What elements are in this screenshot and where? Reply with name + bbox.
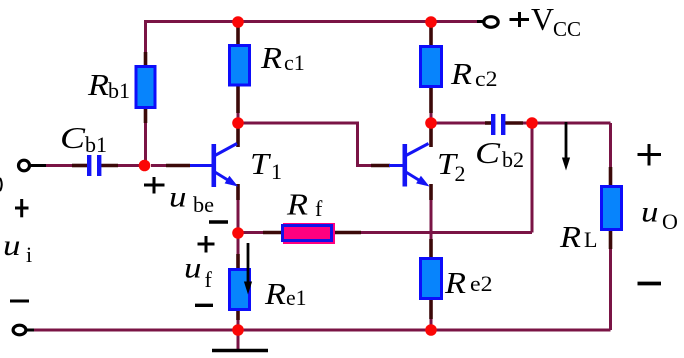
svg-text:be: be [193, 192, 214, 217]
svg-text:e1: e1 [286, 285, 307, 310]
svg-text:b2: b2 [502, 147, 524, 172]
svg-text:O: O [662, 209, 678, 234]
svg-text:R: R [286, 187, 308, 222]
svg-text:f: f [315, 196, 323, 221]
svg-text:C: C [475, 135, 500, 170]
svg-text:CC: CC [553, 17, 581, 41]
svg-text:c1: c1 [284, 50, 305, 75]
svg-text:T: T [250, 146, 272, 181]
svg-text:L: L [584, 227, 597, 252]
svg-text:R: R [87, 67, 109, 102]
svg-text:u: u [3, 229, 21, 262]
svg-text:1: 1 [271, 159, 282, 184]
svg-text:i: i [26, 242, 32, 267]
svg-text:e2: e2 [470, 271, 493, 296]
svg-text:R: R [559, 219, 581, 254]
svg-text:2: 2 [455, 161, 466, 186]
svg-text:u: u [641, 196, 659, 229]
svg-text:u: u [169, 181, 187, 214]
svg-text:b1: b1 [85, 132, 107, 157]
svg-text:c2: c2 [475, 66, 498, 91]
svg-text:f: f [205, 267, 213, 292]
svg-text:R: R [264, 276, 286, 311]
svg-text:u: u [184, 252, 202, 285]
svg-text:C: C [60, 120, 85, 155]
svg-text:R: R [450, 56, 472, 91]
svg-text:b1: b1 [108, 78, 130, 103]
svg-text:R: R [444, 265, 466, 300]
svg-text:V: V [531, 1, 554, 37]
svg-text:R: R [260, 40, 282, 75]
